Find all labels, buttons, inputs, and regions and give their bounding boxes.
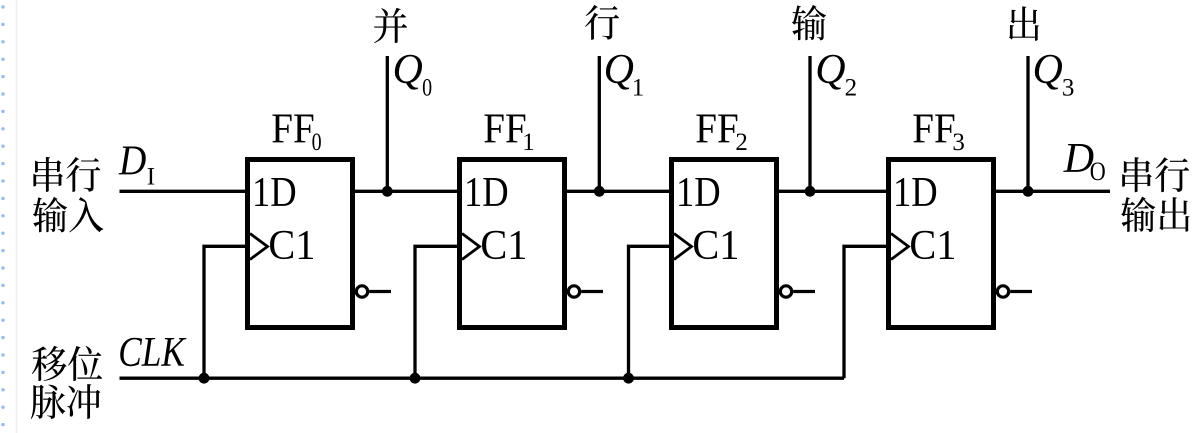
page margin dotted rule bbox=[1, 7, 4, 433]
label parallel-output char 并 bbox=[374, 8, 407, 43]
junction: node Q3 on data line bbox=[1023, 186, 1034, 197]
svg-text:I: I bbox=[147, 163, 155, 190]
wire: Q2 parallel output riser bbox=[808, 56, 811, 191]
wire: CLK bus bbox=[120, 377, 845, 380]
faint scan crease line bbox=[16, 0, 18, 433]
label serial-input line1 串行 bbox=[33, 157, 100, 192]
wire: CLK branch to FF1 C1 bbox=[415, 246, 463, 378]
FF2 dynamic clock input wedge bbox=[674, 234, 692, 260]
junction: node Q2 on data line bbox=[805, 186, 816, 197]
wire: CLK branch to FF3 C1 bbox=[844, 246, 892, 378]
svg-text:1D: 1D bbox=[676, 168, 721, 215]
svg-text:D: D bbox=[118, 137, 146, 184]
FF1 dynamic clock input wedge bbox=[462, 234, 480, 260]
label parallel-output char 输 bbox=[792, 5, 826, 40]
svg-text:2: 2 bbox=[735, 129, 748, 156]
svg-text:Q: Q bbox=[393, 47, 423, 93]
svg-text:CLK: CLK bbox=[118, 329, 187, 376]
flip-flop FF0 box bbox=[248, 160, 353, 328]
FF0 inverted output bubble bbox=[356, 286, 367, 297]
svg-text:FF: FF bbox=[483, 105, 526, 152]
svg-text:3: 3 bbox=[952, 129, 965, 156]
svg-text:1D: 1D bbox=[252, 168, 297, 215]
junction: CLK bus to FF0 bbox=[199, 373, 210, 384]
wire: Q3 parallel output riser bbox=[1026, 56, 1029, 191]
svg-text:1D: 1D bbox=[464, 168, 509, 215]
FF0 dynamic clock input wedge bbox=[250, 234, 268, 260]
wire: Q0 parallel output riser bbox=[386, 56, 389, 191]
label parallel-output char 出 bbox=[1009, 6, 1039, 40]
svg-text:FF: FF bbox=[271, 105, 314, 152]
svg-text:1: 1 bbox=[632, 74, 645, 101]
label shift-pulse line2 脉冲 bbox=[31, 384, 100, 419]
label serial-output line1 串行 bbox=[1122, 157, 1189, 192]
svg-text:0: 0 bbox=[422, 73, 432, 101]
svg-text:FF: FF bbox=[912, 105, 955, 152]
svg-text:1D: 1D bbox=[893, 168, 938, 215]
svg-text:C1: C1 bbox=[480, 221, 527, 268]
svg-text:1: 1 bbox=[522, 129, 535, 156]
svg-text:C1: C1 bbox=[268, 221, 315, 268]
wire: serial input D_I to FF0 1D pin bbox=[120, 190, 249, 193]
svg-text:FF: FF bbox=[695, 105, 738, 152]
junction: node Q1 on data line bbox=[594, 186, 605, 197]
flip-flop FF1 box bbox=[460, 160, 565, 328]
FF1 inverted output bubble bbox=[568, 286, 579, 297]
svg-text:0: 0 bbox=[312, 128, 322, 156]
svg-text:Q: Q bbox=[1033, 47, 1063, 93]
wire: CLK branch to FF2 C1 bbox=[629, 246, 676, 378]
wire: FF1 Q to FF2 1D (node Q1) bbox=[564, 190, 672, 193]
svg-text:O: O bbox=[1090, 158, 1106, 186]
svg-text:C1: C1 bbox=[909, 221, 956, 268]
svg-text:3: 3 bbox=[1062, 74, 1075, 101]
wire: FF3 inverted output stub bbox=[1010, 290, 1032, 293]
junction: CLK bus to FF1 bbox=[410, 373, 421, 384]
wire: FF2 inverted output stub bbox=[793, 290, 815, 293]
wire: FF0 Q to FF1 1D (node Q0) bbox=[352, 190, 460, 193]
FF3 inverted output bubble bbox=[997, 286, 1008, 297]
svg-text:Q: Q bbox=[815, 47, 845, 93]
svg-text:2: 2 bbox=[845, 74, 858, 101]
wire: FF2 Q to FF3 1D (node Q2) bbox=[776, 190, 889, 193]
wire: FF3 Q to serial output D_O (node Q3) bbox=[993, 190, 1110, 193]
wire: CLK branch to FF0 C1 bbox=[204, 246, 251, 378]
label shift-pulse line1 移位 bbox=[32, 346, 102, 381]
FF2 inverted output bubble bbox=[780, 286, 791, 297]
wire: FF0 inverted output stub bbox=[369, 290, 391, 293]
FF3 dynamic clock input wedge bbox=[891, 234, 909, 260]
wire: Q1 parallel output riser bbox=[598, 56, 601, 191]
flip-flop FF2 box bbox=[672, 160, 777, 328]
flip-flop FF3 box bbox=[889, 160, 994, 328]
svg-text:Q: Q bbox=[604, 47, 634, 93]
junction: CLK bus to FF2 bbox=[623, 373, 634, 384]
junction: node Q0 on data line bbox=[382, 186, 393, 197]
wire: FF1 inverted output stub bbox=[581, 290, 603, 293]
label serial-input line2 输入 bbox=[33, 197, 104, 232]
label serial-output line2 输出 bbox=[1121, 197, 1189, 232]
svg-text:C1: C1 bbox=[692, 221, 739, 268]
label parallel-output char 行 bbox=[585, 5, 619, 40]
